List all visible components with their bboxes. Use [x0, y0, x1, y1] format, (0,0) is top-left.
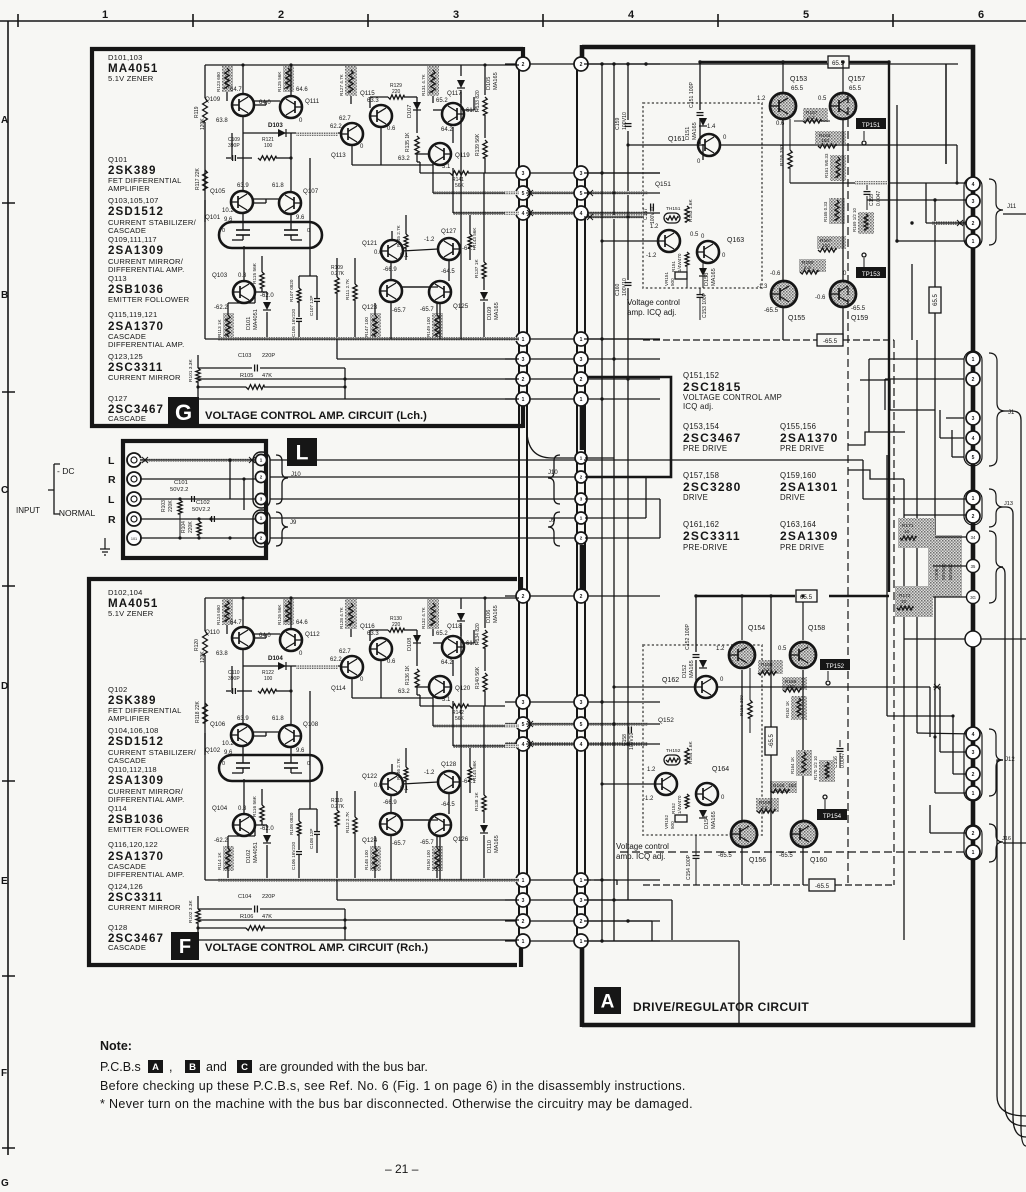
hatched component block right (C309/C310) [895, 518, 975, 617]
svg-text:F: F [179, 936, 191, 958]
svg-text:VR151: VR151 [664, 272, 669, 286]
wire interconnect y=399 [505, 398, 660, 400]
svg-text:C159: C159 [615, 117, 621, 130]
svg-text:0.6: 0.6 [374, 783, 383, 789]
svg-text:INPUT: INPUT [16, 506, 40, 515]
FET Q101 2SK389 [219, 213, 322, 248]
node pin 2 at A edge y=379 [574, 372, 588, 386]
svg-text:Q162: Q162 [662, 677, 679, 684]
diode D153 MA165 [699, 260, 717, 288]
svg-text:5: 5 [522, 722, 525, 728]
svg-text:35: 35 [971, 564, 976, 569]
node pin 3 at G/F edge y=173 [516, 166, 530, 180]
svg-text:63.3: 63.3 [367, 98, 379, 104]
svg-text:64.7: 64.7 [230, 87, 242, 93]
svg-text:-1.2: -1.2 [424, 237, 435, 243]
input jack shield 101 [127, 531, 141, 545]
svg-text:MA165: MA165 [493, 605, 499, 623]
label -65.5 boxed (upper) [817, 334, 894, 346]
resistor R169 2.2 (hatched) [756, 798, 779, 813]
svg-text:R111 2.7K: R111 2.7K [345, 278, 350, 300]
svg-text:Q155,156: Q155,156 [780, 422, 816, 431]
svg-text:1.2: 1.2 [716, 646, 725, 652]
svg-text:E: E [1, 876, 8, 887]
wire interconnect y=193 [505, 191, 660, 195]
svg-text:amp. ICQ adj.: amp. ICQ adj. [627, 308, 676, 317]
svg-text:C153 100P: C153 100P [702, 292, 708, 318]
test point TP152 [820, 659, 850, 685]
transistor Q114 [330, 649, 364, 692]
svg-text:R116 56K: R116 56K [252, 795, 258, 817]
svg-text:Voltage control: Voltage control [616, 842, 669, 851]
wire long dashed rail x=894 [893, 340, 895, 885]
svg-text:56K: 56K [455, 183, 465, 189]
resistor R170 1/2 10 (hatched) [813, 756, 835, 782]
svg-text:390P: 390P [228, 676, 240, 682]
PCB block G border (VOLTAGE CONTROL AMP Lch) [92, 47, 523, 428]
wire staircase jogs right-mid [848, 380, 935, 479]
svg-text:1/4W470: 1/4W470 [677, 253, 682, 272]
svg-text:R144 56K: R144 56K [472, 760, 477, 781]
svg-text:100V10: 100V10 [622, 278, 628, 296]
svg-text:R124 680: R124 680 [216, 605, 221, 625]
svg-text:0.6: 0.6 [374, 250, 383, 256]
svg-text:D105: D105 [486, 77, 492, 90]
shield wire end marks [141, 190, 964, 747]
svg-text:2: 2 [972, 377, 975, 383]
svg-text:2: 2 [522, 62, 525, 68]
svg-text:R101 3.3K: R101 3.3K [188, 359, 194, 382]
resistor R112 2.7K [345, 791, 357, 880]
resistor R145 2.7K [396, 224, 408, 248]
label 65.5 rotated boxed [929, 200, 941, 737]
svg-text:3: 3 [522, 898, 525, 904]
svg-text:C104: C104 [238, 894, 251, 900]
wire corner arc from G pins to input rows [527, 430, 577, 458]
transistor Q151 [646, 224, 699, 259]
svg-text:63.2: 63.2 [398, 156, 410, 162]
svg-text:A: A [152, 1062, 159, 1073]
resistor R152 1/4W470 [671, 794, 689, 814]
svg-text:62.7: 62.7 [339, 649, 351, 655]
transistor Q153 (drive) [757, 62, 807, 127]
svg-text:2: 2 [972, 772, 975, 778]
svg-text:6: 6 [978, 9, 984, 21]
resistor R136 1K [405, 665, 419, 695]
svg-text:are grounded with the bus bar.: are grounded with the bus bar. [259, 1060, 428, 1074]
wire A lower-left exits [584, 64, 739, 1025]
node pin 3 at A edge y=900 [574, 893, 588, 907]
svg-text:DIFFERENTIAL AMP.: DIFFERENTIAL AMP. [108, 265, 184, 274]
node junction big circle [965, 631, 981, 647]
resistor R142 56K [417, 695, 505, 722]
svg-text:R105: R105 [240, 373, 253, 379]
svg-text:3: 3 [580, 357, 583, 363]
svg-text:1: 1 [580, 397, 583, 403]
resistor R101 3.3K [188, 355, 200, 399]
wire long dashed rail x=848 [847, 95, 849, 885]
svg-text:3: 3 [522, 171, 525, 177]
svg-text:-1.2: -1.2 [424, 770, 435, 776]
svg-text:Q122: Q122 [362, 773, 378, 780]
svg-text:A: A [601, 991, 615, 1012]
resistor R122 100 [258, 670, 293, 693]
svg-text:Q112: Q112 [305, 631, 320, 638]
svg-text:R146 2.7K: R146 2.7K [396, 757, 401, 780]
node pin 2 at A edge y=64 [574, 57, 588, 71]
svg-text:2: 2 [522, 919, 525, 925]
transistor Q126 [420, 793, 469, 846]
wire pin5 row (shielded) [433, 696, 519, 728]
resistor R161 W0.33 (hatched) [824, 153, 846, 181]
node pin 1 at A edge y=941 [574, 934, 588, 948]
svg-text:150: 150 [788, 783, 796, 789]
resistor R166 150 (hatched) [782, 677, 807, 692]
svg-text:G: G [1, 1178, 9, 1189]
wire right risers upper [855, 64, 975, 340]
capacitor C151 100P [689, 62, 704, 144]
svg-text:MA165: MA165 [711, 811, 717, 829]
transistor Q160 [779, 821, 827, 864]
svg-text:2: 2 [580, 594, 583, 600]
node pin 2 at A edge y=477 (input bundle) [575, 471, 587, 483]
svg-text:0.0047: 0.0047 [840, 752, 846, 768]
resistor R117 22K [195, 167, 207, 190]
svg-text:120K: 120K [200, 651, 206, 663]
svg-text:4: 4 [972, 182, 975, 188]
wire exit curve J12 [997, 760, 1026, 1116]
svg-text:-65.5: -65.5 [769, 734, 775, 748]
svg-text:2SA1309: 2SA1309 [108, 774, 164, 787]
svg-text:1/4W470: 1/4W470 [677, 795, 682, 814]
svg-text:Q111: Q111 [305, 98, 320, 105]
svg-text:Q164: Q164 [712, 766, 729, 773]
svg-text:65.2: 65.2 [436, 98, 448, 104]
svg-text:Q101: Q101 [205, 214, 221, 221]
trimmer VR151 500 [664, 266, 687, 288]
wire top supply bus [205, 64, 519, 66]
resistor R147 100 (hatched) [364, 303, 381, 339]
transistor Q161 (pre drive) [668, 134, 727, 165]
resistor R132 4.7K (hatched) [421, 599, 439, 629]
svg-text:C108 12P: C108 12P [309, 829, 314, 849]
svg-text:MA4051: MA4051 [253, 842, 259, 863]
svg-text:220K: 220K [168, 500, 174, 512]
svg-text:0.0047: 0.0047 [876, 190, 882, 206]
transistor Q124 [362, 795, 438, 847]
page grid ruler left [1, 21, 15, 1189]
svg-text:D101,103: D101,103 [108, 53, 143, 62]
resistor R103 220K [161, 497, 182, 539]
svg-text:0.27K: 0.27K [331, 271, 345, 277]
svg-text:MA165: MA165 [711, 268, 717, 286]
svg-text:4: 4 [972, 436, 975, 442]
label 65.5 boxed (upper rail) [828, 56, 849, 68]
transistor Q125 [420, 260, 469, 313]
svg-text:PRE DRIVE: PRE DRIVE [780, 444, 824, 453]
transistor Q164 [696, 766, 729, 805]
wire lower buses to pins [196, 377, 519, 399]
input jack L (DC L) [127, 453, 141, 467]
svg-text:Q120: Q120 [455, 685, 471, 692]
svg-text:Q157,158: Q157,158 [683, 471, 719, 480]
svg-text:D153: D153 [704, 273, 710, 286]
svg-text:220P: 220P [262, 894, 275, 900]
svg-text:C151 100P: C151 100P [689, 82, 695, 108]
svg-text:TH151: TH151 [666, 206, 681, 212]
dotted enclosure voltage control amp (lower) [643, 645, 762, 835]
svg-text:Q160: Q160 [810, 857, 827, 864]
svg-text:CASCADE: CASCADE [108, 756, 146, 765]
svg-text:R151: R151 [671, 261, 676, 272]
svg-text:-64.5: -64.5 [441, 802, 455, 808]
svg-text:C154 100P: C154 100P [686, 854, 692, 880]
resistor R110 0.27K [331, 791, 345, 880]
input jack R (DC R) [127, 472, 141, 486]
wire FET drains [205, 158, 291, 223]
svg-text:-62.2: -62.2 [214, 305, 228, 311]
svg-text:61.8: 61.8 [272, 183, 284, 189]
svg-text:EMITTER FOLLOWER: EMITTER FOLLOWER [108, 825, 190, 834]
svg-text:R134 820: R134 820 [475, 623, 481, 645]
svg-text:4: 4 [580, 211, 583, 217]
svg-text:1: 1 [580, 939, 583, 945]
resistor R138 1K [474, 706, 486, 823]
svg-text:Q152: Q152 [658, 717, 674, 724]
svg-text:0.6: 0.6 [387, 126, 396, 132]
resistor R107 0820 [289, 276, 301, 317]
svg-text:Q104: Q104 [212, 805, 228, 812]
transistor Q163 [697, 234, 744, 263]
connector 3-pin group [967, 531, 980, 604]
diode D107 [407, 97, 421, 133]
transistor Q119 [398, 143, 470, 170]
resistor R119 120K [194, 98, 207, 130]
svg-text:Q103,105,107: Q103,105,107 [108, 196, 159, 205]
svg-text:1: 1 [580, 337, 583, 343]
transistor Q120 [398, 676, 471, 703]
svg-text:D107: D107 [407, 105, 413, 118]
svg-text:65.5: 65.5 [791, 85, 804, 92]
svg-text:CASCADE: CASCADE [108, 943, 146, 952]
svg-text:R137 1K: R137 1K [474, 259, 480, 278]
svg-text:100V10: 100V10 [629, 733, 635, 750]
capacitor C102 50V2.2 [192, 500, 214, 522]
node pin 3 at A edge y=173 [574, 166, 588, 180]
wire interconnect y=744 [505, 742, 660, 746]
svg-text:ICQ adj.: ICQ adj. [683, 402, 714, 411]
node pin 3 at G/F edge y=900 [516, 893, 530, 907]
transistor Q118 [433, 623, 478, 666]
svg-text:C152 100P: C152 100P [685, 624, 691, 650]
wire pin4 row (shielded) [453, 701, 519, 748]
node pin 3 at A edge y=499 (input bundle) [575, 493, 587, 505]
svg-text:50V2.2: 50V2.2 [170, 487, 188, 493]
svg-text:R153 1.6K: R153 1.6K [688, 199, 694, 222]
svg-text:R138 1K: R138 1K [474, 792, 480, 811]
svg-text:L: L [108, 494, 115, 506]
svg-text:MA165: MA165 [494, 302, 500, 320]
svg-text:1: 1 [972, 850, 975, 856]
bracket J11 [989, 179, 1026, 245]
transistor Q152 [643, 767, 677, 802]
diode D154 MA165 [699, 810, 717, 829]
resistor R121 100 [258, 137, 293, 160]
node pin 1 at A edge y=880 [574, 873, 588, 887]
resistor R144 56K [468, 760, 477, 781]
svg-text:DRIVE: DRIVE [780, 493, 805, 502]
svg-text:VOLTAGE CONTROL AMP. CIRCUIT (: VOLTAGE CONTROL AMP. CIRCUIT (Lch.) [205, 410, 427, 422]
node pin 1 at A edge y=399 [574, 392, 588, 406]
resistor R125 56K (hatched) [277, 66, 294, 92]
svg-text:Note:: Note: [100, 1039, 132, 1053]
resistor R109 0.27K [331, 258, 345, 339]
connector J12 pins [964, 727, 982, 801]
wire 65.5 rail lower [696, 596, 889, 640]
svg-text:56K: 56K [455, 716, 465, 722]
ground at input block [100, 538, 110, 555]
resistor R104 220K [181, 517, 201, 539]
svg-text:MA165: MA165 [689, 660, 695, 678]
label -65.5 rotated boxed (mid) [765, 596, 777, 885]
capacitor C159 100V10 [615, 112, 632, 130]
transistor Q162 (pre drive) [662, 676, 724, 698]
svg-text:-65.7: -65.7 [420, 840, 434, 846]
svg-text:R113 1K: R113 1K [217, 319, 222, 337]
svg-text:R119: R119 [194, 106, 200, 118]
node pin 2 at A edge y=538 (input bundle) [575, 532, 587, 544]
transistor Q116 [360, 623, 396, 665]
svg-text:-65.5: -65.5 [851, 305, 866, 312]
node pin 1 at A edge y=518 (input bundle) [575, 512, 587, 524]
svg-text:2: 2 [972, 221, 975, 227]
svg-text:R148 100: R148 100 [364, 850, 369, 870]
svg-text:100: 100 [264, 143, 273, 149]
resistor R131 4.7K (hatched) [421, 66, 439, 96]
svg-text:Q102: Q102 [108, 685, 127, 694]
svg-text:Q109,111,117: Q109,111,117 [108, 235, 157, 244]
capacitor C107 12P [309, 276, 320, 320]
svg-text:R139 56K: R139 56K [475, 133, 481, 156]
svg-text:* Never turn on the machine wi: * Never turn on the machine with the bus… [100, 1097, 693, 1111]
svg-text:5.1V ZENER: 5.1V ZENER [108, 74, 154, 83]
diode D103 [243, 116, 340, 137]
wire exit curve inner [1000, 567, 1026, 1126]
resistor R123 680 (hatched) [216, 66, 233, 92]
svg-text:PRE-DRIVE: PRE-DRIVE [683, 543, 728, 552]
wire base join Q109-Q111 [254, 101, 280, 105]
svg-text:1.4: 1.4 [707, 124, 716, 130]
svg-text:Q107: Q107 [303, 188, 319, 195]
wire top drops [227, 63, 487, 104]
transistor Q117 [433, 90, 478, 133]
bracket J10 right [548, 455, 560, 504]
svg-text:220P: 220P [262, 353, 275, 359]
diode D108 [407, 630, 421, 666]
resistor R159 2.2 (hatched) [799, 259, 826, 274]
input jack R (NORMAL R) [127, 512, 141, 526]
svg-text:C160: C160 [615, 283, 621, 296]
svg-text:1: 1 [522, 337, 525, 343]
node pin 5 at G/F edge y=724 [516, 717, 530, 731]
svg-text:2SC3280: 2SC3280 [683, 480, 741, 494]
resistor R134 820 [475, 623, 487, 671]
transistor Q112 [280, 620, 320, 657]
resistor R151 1/4W470 [671, 252, 689, 272]
bracket J1 [989, 353, 1015, 466]
junction dots at bus crossings [600, 60, 936, 942]
resistor R143 56K [468, 227, 477, 248]
svg-text:4: 4 [580, 742, 583, 748]
wire mid bus [337, 880, 519, 900]
svg-text:65.2: 65.2 [436, 631, 448, 637]
FET Q102 2SK389 [219, 746, 322, 781]
svg-text:-65.5: -65.5 [823, 338, 838, 345]
svg-text:3G: 3G [970, 595, 976, 600]
svg-text:R103: R103 [161, 500, 167, 512]
bracket J13 [989, 489, 1013, 527]
wire J10 bundle to A [270, 460, 577, 499]
svg-text:R112 2.7K: R112 2.7K [345, 811, 350, 833]
svg-text:64.2: 64.2 [441, 660, 453, 666]
connector J13 pins [964, 490, 982, 525]
node pin 4 at G/F edge y=744 [516, 737, 530, 751]
svg-text:Q115,119,121: Q115,119,121 [108, 310, 157, 319]
svg-text:62.2: 62.2 [330, 124, 342, 130]
svg-text:64.6: 64.6 [296, 620, 308, 626]
svg-text:63.8: 63.8 [216, 651, 228, 657]
svg-text:0.27K: 0.27K [331, 804, 345, 810]
svg-text:Q155: Q155 [788, 315, 805, 322]
svg-text:AMPLIFIER: AMPLIFIER [108, 184, 150, 193]
node pin 5 at A edge y=193 [574, 186, 588, 200]
svg-text:62.2: 62.2 [330, 657, 342, 663]
wire lower cluster mesh [643, 670, 808, 885]
svg-text:3: 3 [522, 700, 525, 706]
resistor R106 47K [198, 914, 345, 930]
capacitor C153 100P [697, 288, 709, 320]
svg-text:VOLTAGE CONTROL AMP: VOLTAGE CONTROL AMP [683, 393, 782, 402]
svg-text:Q110: Q110 [205, 629, 220, 636]
svg-text:500: 500 [670, 278, 675, 286]
svg-text:2SC3311: 2SC3311 [683, 529, 741, 543]
svg-text:0.6: 0.6 [776, 121, 785, 127]
svg-text:MA165: MA165 [493, 72, 499, 90]
svg-text:R150 100: R150 100 [426, 850, 431, 870]
svg-text:R: R [108, 514, 116, 526]
bracket J9 right [548, 512, 560, 546]
svg-text:390P: 390P [228, 143, 240, 149]
svg-text:-65.7: -65.7 [392, 841, 406, 847]
svg-text:R143 56K: R143 56K [472, 227, 477, 248]
svg-text:A: A [1, 115, 8, 126]
wire interconnect y=724 [505, 722, 660, 726]
svg-text:2SA1301: 2SA1301 [780, 480, 838, 494]
svg-text:Q116,120,122: Q116,120,122 [108, 840, 158, 849]
capacitor C156 0.0047 [833, 740, 846, 768]
node pin 1 at G/F edge y=941 [516, 934, 530, 948]
svg-text:-65.7: -65.7 [420, 307, 434, 313]
G parts list text [108, 53, 197, 423]
svg-text:120K: 120K [200, 118, 206, 130]
connector J1 pins [964, 351, 982, 466]
svg-text:Q124,126: Q124,126 [108, 882, 143, 891]
svg-text:Q151,152: Q151,152 [683, 371, 719, 380]
svg-text:0.3: 0.3 [238, 806, 247, 812]
resistor R146 2.7K [396, 757, 408, 781]
svg-text:1: 1 [972, 357, 975, 363]
capacitor C101 50V2.2 [170, 480, 194, 502]
